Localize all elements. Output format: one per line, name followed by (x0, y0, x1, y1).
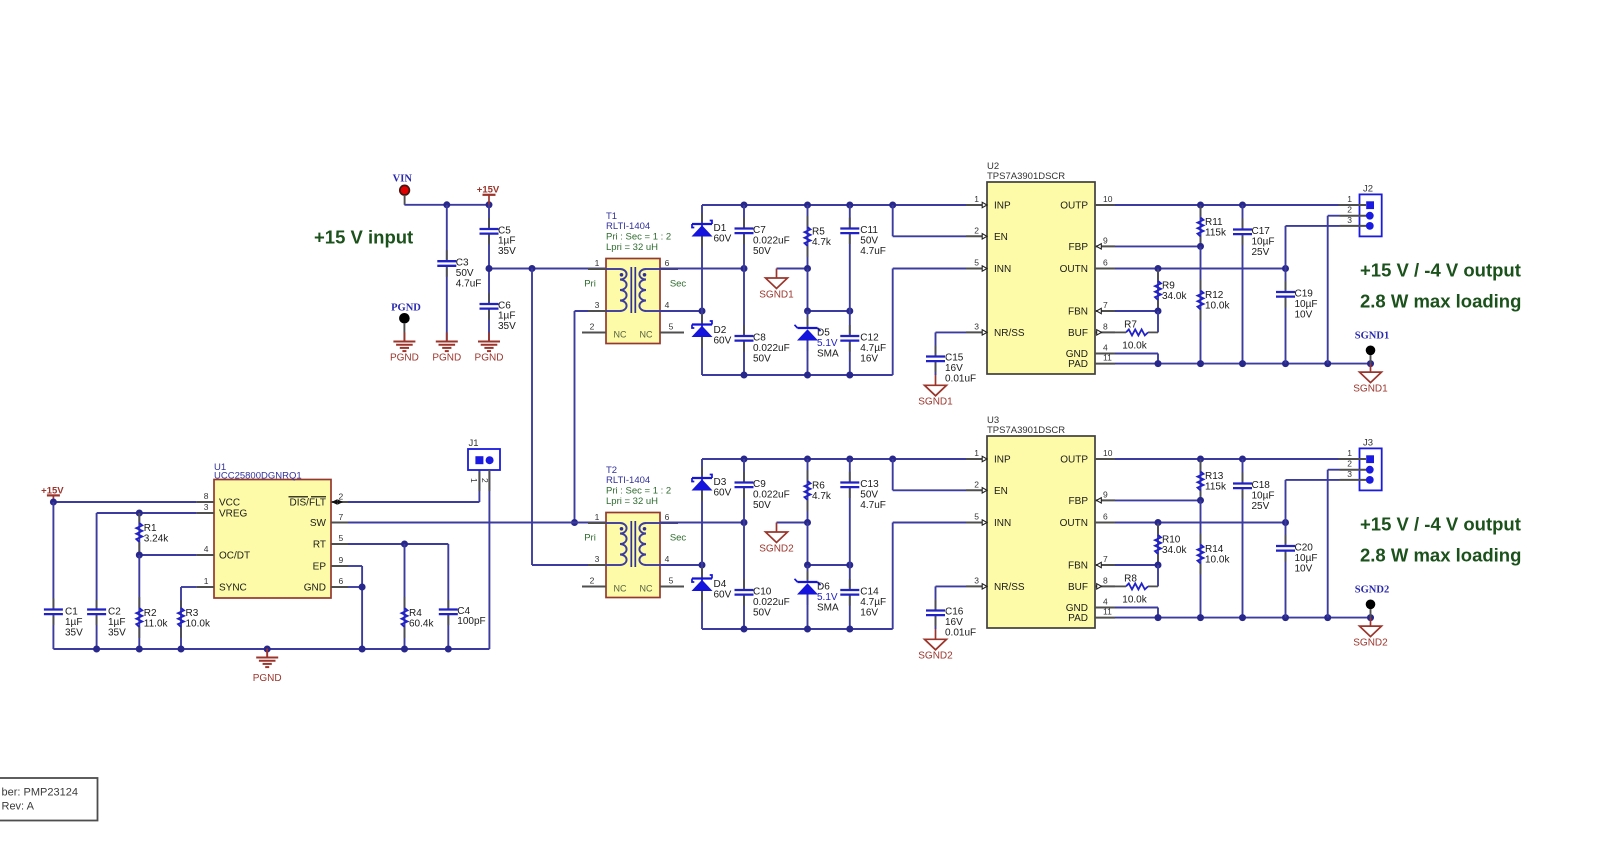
svg-text:11.0k: 11.0k (144, 618, 169, 629)
diode D1 (692, 213, 713, 247)
label R12 (1205, 290, 1230, 311)
U1 DIS/FLT bidir glyph (332, 499, 344, 505)
svg-text:SGND1: SGND1 (759, 290, 794, 301)
J3 pin numbers (1347, 448, 1352, 479)
svg-text:+15 V / -4 V output: +15 V / -4 V output (1360, 260, 1521, 281)
svg-text:RLTI-1404: RLTI-1404 (606, 475, 650, 486)
U2 pin BUF stub (1068, 321, 1115, 339)
svg-text:50V: 50V (753, 353, 771, 364)
svg-text:0.022uF: 0.022uF (753, 343, 790, 354)
svg-text:C14: C14 (860, 587, 879, 598)
junction positive bus (804, 456, 811, 463)
junction PAD bus (1324, 614, 1331, 621)
J2 pin1 pad (1339, 201, 1375, 209)
svg-text:VREG: VREG (219, 509, 248, 520)
junction OUTN/R10 (1155, 519, 1162, 526)
svg-text:INN: INN (994, 518, 1011, 529)
svg-text:60.4k: 60.4k (409, 618, 434, 629)
junction SW line (571, 519, 578, 526)
svg-text:1: 1 (974, 448, 979, 458)
svg-text:6: 6 (1103, 512, 1108, 522)
wire OUTP (1115, 458, 1339, 460)
label U3 part (987, 425, 1065, 436)
svg-text:R5: R5 (812, 227, 825, 238)
svg-text:115k: 115k (1205, 227, 1227, 238)
svg-text:C10: C10 (753, 587, 772, 598)
svg-text:SW: SW (310, 518, 327, 529)
junction negative bus (804, 372, 811, 379)
svg-text:7: 7 (339, 512, 344, 522)
junction zener top (804, 562, 811, 569)
label SGND1 (port) (1353, 384, 1388, 395)
svg-text:10: 10 (1103, 448, 1113, 458)
capacitor C17 (1233, 205, 1252, 364)
wire primary drop to T2 (532, 269, 606, 566)
svg-text:C18: C18 (1252, 480, 1271, 491)
ground PGND (C3) (436, 333, 458, 352)
svg-text:Pri : Sec = 1 : 2: Pri : Sec = 1 : 2 (606, 486, 671, 497)
svg-text:6: 6 (339, 576, 344, 586)
label R14 (1205, 544, 1230, 565)
junction T2 pin6 node (741, 519, 748, 526)
svg-text:8: 8 (1103, 321, 1108, 331)
ground SGND1 (C15) (925, 375, 947, 396)
label SGND2 (C16) (918, 651, 953, 662)
svg-text:SGND2: SGND2 (1353, 638, 1388, 649)
junction PAD bus (1197, 614, 1204, 621)
svg-text:6: 6 (1103, 258, 1108, 268)
svg-text:BUF: BUF (1068, 582, 1088, 593)
U2 pin INP stub (966, 194, 1011, 212)
U3 pin BUF stub (1068, 575, 1115, 593)
capacitor C2 (87, 600, 106, 649)
svg-text:0.022uF: 0.022uF (753, 597, 790, 608)
svg-text:BUF: BUF (1068, 328, 1088, 339)
svg-text:R2: R2 (144, 608, 157, 619)
label R11 (1205, 217, 1227, 238)
label T1 ratio (606, 232, 671, 243)
wire RT (348, 544, 448, 600)
label R8 (1122, 574, 1147, 606)
svg-text:35V: 35V (498, 321, 516, 332)
junction RT/R4 (401, 541, 408, 548)
U2 pin FBP stub (1069, 235, 1115, 253)
svg-text:60V: 60V (714, 335, 732, 346)
resistor R6 (805, 459, 811, 523)
svg-text:R14: R14 (1205, 544, 1224, 555)
label T1 part (606, 221, 650, 232)
svg-text:C1: C1 (65, 607, 78, 618)
junction rail C2 (93, 646, 100, 653)
svg-text:50V: 50V (753, 246, 771, 257)
svg-text:FBP: FBP (1069, 496, 1089, 507)
junction positive bus (889, 456, 896, 463)
label R5 (812, 227, 832, 248)
svg-text:5: 5 (669, 576, 674, 586)
svg-text:J1: J1 (469, 438, 479, 449)
label C1 (65, 607, 83, 639)
svg-text:OUTP: OUTP (1060, 455, 1088, 466)
title block number (2, 787, 78, 799)
svg-text:3: 3 (1347, 469, 1352, 479)
label C2 (108, 607, 126, 639)
U3 pin EN stub (966, 479, 1008, 497)
svg-text:1: 1 (595, 512, 600, 522)
junction negative bus (741, 626, 748, 633)
wire VREG (97, 513, 197, 600)
svg-text:UCC25800DGNRQ1: UCC25800DGNRQ1 (214, 471, 302, 482)
svg-text:RLTI-1404: RLTI-1404 (606, 221, 650, 232)
U1 pin VREG stub (197, 502, 248, 520)
svg-text:PGND: PGND (390, 353, 419, 364)
J1 pin2 number (480, 478, 490, 483)
svg-text:C17: C17 (1252, 226, 1271, 237)
svg-text:0.01uF: 0.01uF (945, 627, 976, 638)
junction positive bus (741, 202, 748, 209)
capacitor C14 (840, 565, 859, 629)
svg-text:C5: C5 (498, 225, 511, 236)
svg-text:50V: 50V (753, 607, 771, 618)
net label SGND2 (1355, 585, 1389, 596)
wire DIS/FLT to J1 (348, 470, 479, 502)
resistor R13 (1198, 459, 1204, 500)
wire J3 pin2 (1328, 470, 1340, 618)
U3 pin OUTN stub (1060, 512, 1115, 530)
junction PAD bus (1197, 360, 1204, 367)
svg-text:2: 2 (339, 492, 344, 502)
capacitor C16 (926, 599, 945, 629)
svg-text:C12: C12 (860, 333, 879, 344)
svg-text:D4: D4 (714, 579, 727, 590)
wire diode leg (701, 459, 703, 629)
svg-text:4: 4 (1103, 343, 1108, 353)
junction negative bus (846, 626, 853, 633)
label D3 (714, 477, 732, 498)
resistor R14 (1198, 500, 1204, 617)
label PGND (C3) (432, 353, 461, 364)
svg-text:Lpri = 32 uH: Lpri = 32 uH (606, 242, 658, 253)
svg-text:EN: EN (994, 232, 1008, 243)
svg-text:4: 4 (1103, 597, 1108, 607)
svg-text:1: 1 (204, 576, 209, 586)
svg-text:NC: NC (640, 330, 653, 340)
svg-text:0.022uF: 0.022uF (753, 489, 790, 500)
svg-text:4.7k: 4.7k (812, 491, 832, 502)
label U2 refdes (987, 161, 999, 172)
label SGND1 (rect) (759, 290, 794, 301)
svg-text:TPS7A3901DSCR: TPS7A3901DSCR (987, 425, 1065, 436)
svg-text:R8: R8 (1124, 574, 1137, 585)
junction OUTN/C19 (1282, 265, 1289, 272)
svg-text:9: 9 (1103, 235, 1108, 245)
svg-text:4: 4 (204, 544, 209, 554)
svg-text:C16: C16 (945, 607, 964, 618)
U3 pin NR/SS stub (966, 575, 1025, 593)
U3 pin FBN stub (1068, 554, 1115, 572)
svg-text:10.0k: 10.0k (1205, 554, 1230, 565)
label R9 (1162, 281, 1187, 302)
svg-text:0.01uF: 0.01uF (945, 373, 976, 384)
svg-text:35V: 35V (108, 627, 126, 638)
junction rail R4 (401, 646, 408, 653)
svg-text:C2: C2 (108, 607, 121, 618)
ground PGND (port) (393, 333, 415, 352)
svg-text:R3: R3 (186, 608, 199, 619)
svg-text:DIS/FLT: DIS/FLT (290, 498, 326, 509)
power +15V (input) (483, 195, 496, 205)
svg-text:34.0k: 34.0k (1162, 291, 1187, 302)
capacitor C19 (1276, 269, 1295, 364)
label SGND1 (C15) (918, 397, 953, 408)
svg-text:35V: 35V (65, 627, 83, 638)
label C10 (753, 587, 790, 619)
heading output (1360, 260, 1521, 281)
svg-text:R4: R4 (409, 608, 422, 619)
junction OUTP/R11 (1197, 202, 1204, 209)
junction PAD bus (1155, 614, 1162, 621)
ground SGND2 (C16) (925, 629, 947, 650)
U3 pin GND stub (1066, 597, 1115, 615)
capacitor C15 (926, 345, 945, 375)
label J1 (469, 438, 479, 449)
svg-text:SGND1: SGND1 (1355, 331, 1389, 342)
label R13 (1205, 471, 1227, 492)
svg-text:4.7uF: 4.7uF (860, 246, 886, 257)
junction C5 top (486, 201, 493, 208)
op-amp U1 box (214, 480, 331, 599)
wire SGND2 hook (777, 523, 808, 533)
svg-text:C6: C6 (498, 300, 511, 311)
svg-text:9: 9 (339, 555, 344, 565)
svg-text:EP: EP (313, 562, 327, 573)
svg-text:1: 1 (1347, 448, 1352, 458)
svg-text:3: 3 (974, 321, 979, 331)
junction negative bus (741, 372, 748, 379)
label T2 refdes (606, 465, 617, 476)
capacitor C3 (437, 205, 456, 342)
svg-text:2: 2 (590, 322, 595, 332)
wire T1 pin6 to cap node (660, 268, 744, 270)
wire U1 ground rail (53, 648, 489, 650)
net label PGND (391, 303, 421, 314)
junction cap mid (846, 562, 853, 569)
junction FBN/R7 (1155, 308, 1162, 315)
svg-text:C20: C20 (1295, 543, 1314, 554)
junction rail PGND (264, 646, 271, 653)
label U1 refdes (214, 462, 226, 473)
svg-text:D3: D3 (714, 477, 727, 488)
junction diode mid node (699, 562, 706, 569)
svg-text:1µF: 1µF (108, 617, 125, 628)
wire OUTP (1115, 204, 1339, 206)
svg-text:+15V: +15V (477, 184, 500, 195)
J1 pin2 pad (486, 456, 494, 464)
svg-text:PGND: PGND (391, 303, 421, 314)
junction OUTP/C17 (1239, 202, 1246, 209)
svg-text:R1: R1 (144, 523, 157, 534)
junction positive bus (804, 202, 811, 209)
capacitor C8 (735, 269, 754, 376)
wire NR/SS (936, 332, 967, 345)
junction +15V/C1 (50, 499, 57, 506)
svg-text:INN: INN (994, 264, 1011, 275)
label PGND (port) (390, 353, 419, 364)
power +15V (U1) (47, 495, 60, 505)
svg-text:8: 8 (1103, 575, 1108, 585)
label R3 (186, 608, 211, 629)
label C11 (860, 225, 886, 257)
junction OUTP/C18 (1239, 456, 1246, 463)
diode D2 (692, 314, 713, 348)
U1 pin SYNC stub (197, 576, 247, 594)
svg-text:1: 1 (595, 258, 600, 268)
wire GND to PAD (1115, 608, 1158, 618)
capacitor C13 (840, 459, 859, 565)
svg-text:2: 2 (974, 225, 979, 235)
J1 pin2 wire (488, 470, 490, 649)
svg-text:NC: NC (614, 330, 627, 340)
heading loading (1360, 291, 1521, 312)
wire GND to PAD (1115, 354, 1158, 364)
junction PAD bus (1239, 360, 1246, 367)
junction PAD bus (1367, 360, 1374, 367)
resistor R7 (1115, 311, 1158, 335)
U2 pin EN stub (966, 225, 1008, 243)
svg-text:3: 3 (1347, 215, 1352, 225)
label U1 part (214, 471, 302, 482)
U2 pin FBN stub (1068, 300, 1115, 318)
transformer T1 (582, 258, 686, 344)
label C13 (860, 479, 886, 511)
wire J2 pin2 (1328, 216, 1340, 364)
wire SW to T2 pin1 (348, 522, 606, 524)
junction rail C4 (445, 646, 452, 653)
svg-text:2: 2 (590, 576, 595, 586)
svg-text:10.0k: 10.0k (1205, 300, 1230, 311)
wire FBN (1115, 564, 1158, 566)
capacitor C20 (1276, 523, 1295, 618)
capacitor C10 (735, 523, 754, 630)
junction OUTP/R13 (1197, 456, 1204, 463)
svg-text:3.24k: 3.24k (144, 533, 169, 544)
label C5 (498, 225, 516, 257)
svg-text:R7: R7 (1124, 320, 1137, 331)
svg-text:SGND2: SGND2 (759, 544, 794, 555)
svg-text:60V: 60V (714, 589, 732, 600)
port SGND1 (1366, 346, 1376, 364)
U3 pin FBP stub (1069, 489, 1115, 507)
svg-text:J2: J2 (1363, 184, 1373, 195)
svg-text:5.1V: 5.1V (817, 592, 838, 603)
svg-text:5: 5 (974, 512, 979, 522)
wire INN feed (893, 522, 966, 524)
J2 pin2 pad (1340, 212, 1374, 220)
wire SYNC (181, 587, 197, 600)
junction rail GND (359, 646, 366, 653)
svg-text:Pri: Pri (584, 533, 596, 544)
wire PAD bus (1115, 617, 1371, 619)
svg-text:9: 9 (1103, 489, 1108, 499)
junction positive bus (846, 202, 853, 209)
svg-text:2: 2 (1347, 205, 1352, 215)
wire VIN to +15V (404, 204, 489, 206)
label U2 part (987, 171, 1065, 182)
U3 pin INP stub (966, 448, 1011, 466)
zener D6 (795, 565, 821, 629)
junction PAD bus (1282, 614, 1289, 621)
label R6 (812, 481, 832, 502)
capacitor C9 (735, 459, 754, 523)
svg-text:Pri : Sec = 1 : 2: Pri : Sec = 1 : 2 (606, 232, 671, 243)
title block rev (2, 801, 35, 813)
svg-text:D1: D1 (714, 223, 727, 234)
ground SGND2 (port) (1360, 618, 1382, 637)
svg-text:7: 7 (1103, 300, 1108, 310)
junction cap mid (846, 308, 853, 315)
junction T1 pri feed (529, 265, 536, 272)
connector J1 box (468, 449, 500, 470)
junction VREG/R1 (136, 510, 143, 517)
svg-text:NR/SS: NR/SS (994, 328, 1025, 339)
svg-text:VIN: VIN (393, 173, 413, 184)
svg-text:NC: NC (614, 584, 627, 594)
svg-text:C15: C15 (945, 353, 964, 364)
junction SGND1 hook (804, 265, 811, 272)
label PGND (C6) (475, 353, 504, 364)
svg-text:4.7µF: 4.7µF (860, 597, 886, 608)
svg-text:7: 7 (1103, 554, 1108, 564)
resistor R10 (1155, 523, 1161, 566)
svg-text:1µF: 1µF (498, 236, 515, 247)
svg-text:D6: D6 (817, 582, 830, 593)
wire zener node (808, 523, 850, 566)
svg-text:8: 8 (204, 491, 209, 501)
wire negative bus (702, 523, 893, 630)
U2 pin OUTN stub (1060, 258, 1115, 276)
svg-text:+15 V input: +15 V input (314, 227, 413, 248)
svg-text:C4: C4 (457, 606, 470, 617)
resistor R12 (1198, 246, 1204, 363)
transformer T2 (582, 512, 686, 598)
resistor R4 (402, 544, 408, 649)
junction C5/C6 node (486, 265, 493, 272)
junction positive bus (741, 456, 748, 463)
U2 pin GND stub (1066, 343, 1115, 361)
svg-text:2.8 W max loading: 2.8 W max loading (1360, 545, 1521, 566)
label C9 (753, 479, 790, 511)
port PGND (input) (400, 314, 410, 342)
wire OUTN (1115, 268, 1286, 270)
svg-text:SYNC: SYNC (219, 583, 247, 594)
svg-text:NR/SS: NR/SS (994, 582, 1025, 593)
svg-text:OUTP: OUTP (1060, 201, 1088, 212)
wire T1 pin4 to diode node (660, 310, 702, 312)
label D4 (714, 579, 732, 600)
label D5 (817, 328, 839, 360)
U3 pin INN stub (966, 512, 1011, 530)
svg-text:PAD: PAD (1068, 359, 1088, 370)
capacitor C12 (840, 311, 859, 375)
net label SGND1 (1355, 331, 1389, 342)
wire GND pin (348, 587, 362, 649)
svg-text:2: 2 (974, 479, 979, 489)
wire J2 pin3 (1286, 226, 1340, 269)
svg-text:PAD: PAD (1068, 613, 1088, 624)
svg-text:10µF: 10µF (1295, 553, 1318, 564)
svg-text:Pri: Pri (584, 279, 596, 290)
label J3 (1363, 438, 1373, 449)
resistor R1 (136, 513, 142, 555)
